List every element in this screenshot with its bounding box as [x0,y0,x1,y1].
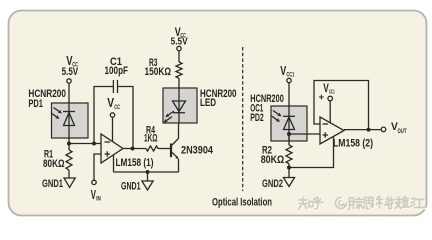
wire U1 output [123,148,146,150]
node VOUT terminal [381,121,406,135]
svg-text:GND1: GND1 [121,181,141,193]
svg-text:LM158 (1): LM158 (1) [116,157,154,169]
resistor R1 [66,150,72,170]
capacitor C1 [105,56,129,93]
wire feedback loop right [118,87,134,149]
wire U2 V+ pin [329,101,331,123]
resistor R4 [146,146,158,151]
wire U1 + input to VIN [94,154,101,180]
node U2 output junction [367,128,371,132]
node VCC1 (U2 supply) terminal [319,81,335,103]
watermark 彭 [402,197,416,208]
ground GND1 (under R1) [64,178,75,187]
ground GND1 (under U1) [142,181,153,190]
wire ground rail [114,171,179,173]
wire U2 V- pin to R2 junction [289,136,334,167]
wire node A to U1 inverting input [69,143,101,145]
wire U2 feedback loop [314,81,369,130]
watermark 恩 [364,198,375,210]
wire U1 V+ pin [112,117,114,141]
wire junction to GND1 [147,172,149,181]
wire R2 to junction [288,164,290,178]
svg-text:OUT: OUT [398,129,407,135]
watermark 腾 [349,198,364,211]
op-amp U2 LM158(2) [320,117,344,144]
svg-text:1KΩ: 1KΩ [144,133,158,145]
watermark @ [336,198,348,210]
resistor R2 [286,145,292,164]
watermark 科 [377,197,392,209]
wire R4 to Q1 base [158,148,170,150]
svg-text:PD1: PD1 [28,98,43,110]
transistor Q1 2N3904 [171,123,179,172]
node VCC (U1 supply) terminal [107,95,120,117]
node feedback tap junction [92,142,96,146]
svg-text:LM158 (2): LM158 (2) [333,138,373,150]
wire VCC to PD1 [68,83,70,103]
wire PD2 node to R2 [288,134,290,145]
isolation boundary dashed line [242,47,244,191]
svg-text:PD2: PD2 [250,112,264,124]
svg-text:GND1: GND1 [42,178,63,190]
node VCC1 (right supply) terminal [280,64,295,83]
svg-text:150KΩ: 150KΩ [145,66,172,78]
svg-text:CC1: CC1 [329,89,335,95]
svg-text:2N3904: 2N3904 [181,145,214,157]
wire VCC1 to PD2 [288,83,290,106]
svg-text:Optical Isolation: Optical Isolation [212,196,272,208]
svg-text:GND2: GND2 [262,178,283,190]
node PD2 anode junction [287,132,291,136]
node VCC (left supply) terminal [62,53,79,83]
svg-text:IN: IN [96,197,101,203]
svg-text:LED: LED [200,97,216,109]
wire feedback loop left [94,87,113,144]
wire node A to R1 [68,144,70,151]
photodiode PD2 (HCNR200 OC1) [271,106,307,141]
wire PD2 node to U2 + input [289,133,320,135]
wire U1 V- pin to ground rail [113,155,115,172]
wire R3 to LED box [178,78,180,88]
watermark 知 [299,198,314,210]
watermark 乎 [313,198,325,210]
node VCC (R3 supply) terminal [171,25,188,51]
op-amp U1 LM158(1) [101,134,123,163]
wire VCC to R3 [178,51,180,62]
svg-text:100pF: 100pF [105,65,129,77]
svg-text:80KΩ: 80KΩ [43,158,65,170]
node ground rail junction [146,170,150,174]
node A junction (PD1 anode / R1 / U1 inverting input) [67,142,71,146]
svg-text:CC1: CC1 [286,73,294,79]
wire R1 to GND1 [68,170,70,178]
LED (HCNR200) [163,88,197,123]
watermark 工 [415,200,426,209]
svg-text:80KΩ: 80KΩ [261,154,285,166]
wire U2 output [344,129,381,131]
resistor R3 [176,62,182,78]
watermark 技 [390,197,403,210]
svg-text:5.5V: 5.5V [62,66,79,78]
svg-text:CC: CC [114,104,120,111]
ground GND2 [283,178,294,187]
node U1 output junction [131,147,135,151]
node VIN terminal [91,180,101,202]
node R2 / GND2 junction [287,166,291,170]
photodiode PD1 (HCNR200) [51,103,88,144]
